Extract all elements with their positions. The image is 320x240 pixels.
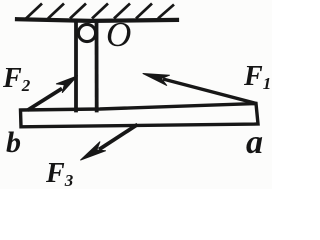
- pin circle O: [78, 24, 95, 41]
- label O: [106, 17, 131, 52]
- force F3 arrow: [81, 125, 138, 161]
- label F3: [46, 160, 73, 188]
- hatch marks: [26, 4, 174, 19]
- label a: [246, 126, 263, 160]
- label F2: [3, 65, 30, 93]
- beam outline b-a: [21, 104, 259, 127]
- label b: [6, 128, 21, 158]
- label F1: [244, 63, 271, 91]
- post right edge: [95, 22, 99, 111]
- ceiling line: [17, 19, 177, 21]
- post left edge: [74, 22, 78, 111]
- force F2 arrow: [28, 76, 78, 110]
- force F1 arrow: [143, 74, 257, 104]
